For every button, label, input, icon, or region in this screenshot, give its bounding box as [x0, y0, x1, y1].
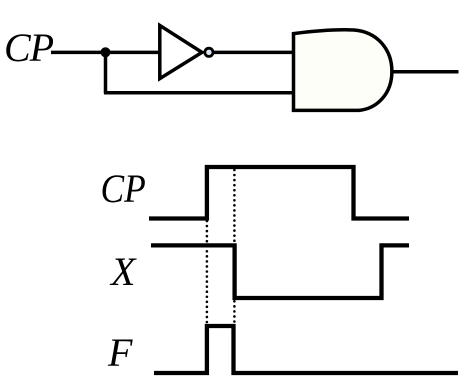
wire branch vertical: [104, 52, 108, 92]
svg-text:CP: CP: [4, 25, 54, 70]
wire inverter output to AND upper input: [213, 51, 294, 55]
AND gate U2: [294, 30, 392, 111]
svg-text:CP: CP: [101, 167, 146, 211]
svg-text:X: X: [109, 249, 137, 294]
wire branch horizontal to AND lower input: [104, 91, 294, 95]
dotted line t2: [233, 170, 236, 325]
wire CP waveform: [149, 167, 409, 219]
wire X waveform: [151, 245, 409, 298]
wire F waveform: [154, 326, 458, 373]
wire CP input to inverter: [51, 51, 161, 55]
inverter U1 output bubble: [205, 48, 213, 56]
wire AND output: [392, 70, 459, 74]
junction dot: [101, 47, 111, 57]
inverter U1 triangle: [160, 25, 202, 78]
svg-text:F: F: [107, 330, 133, 375]
dotted line t1: [206, 221, 209, 325]
